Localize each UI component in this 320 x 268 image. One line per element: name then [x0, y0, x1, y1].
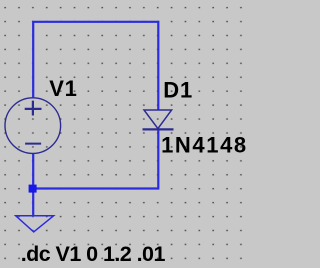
svg-text:.dc V1 0 1.2 .01: .dc V1 0 1.2 .01	[21, 242, 166, 266]
svg-text:V1: V1	[49, 76, 78, 101]
svg-text:1N4148: 1N4148	[161, 133, 248, 158]
svg-text:D1: D1	[163, 78, 193, 103]
